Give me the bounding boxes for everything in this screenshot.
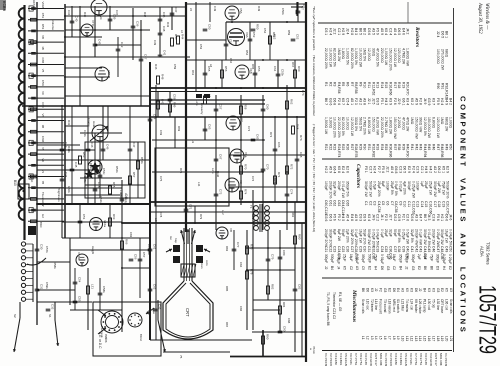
svg-text:H2 9: H2 9 [341,28,345,35]
svg-text:300pF: 300pF [324,254,328,263]
svg-text:R26: R26 [346,144,350,150]
svg-text:C61: C61 [328,200,332,206]
svg-text:0·01μF: 0·01μF [336,254,340,264]
svg-text:R82: R82 [271,284,275,290]
svg-text:R47: R47 [161,99,165,105]
svg-text:R75: R75 [179,168,183,174]
svg-text:B4 2: B4 2 [449,98,453,105]
svg-text:D3 9: D3 9 [363,214,367,221]
svg-text:R85: R85 [225,286,229,292]
svg-text:R81: R81 [291,212,295,218]
svg-text:B1D: B1D [39,222,43,227]
svg-text:C62: C62 [333,200,337,206]
svg-text:F5 9: F5 9 [436,98,440,105]
svg-text:R32,R82: R32,R82 [371,144,375,157]
svg-text:L18: L18 [436,336,440,342]
svg-text:500pF 2W: 500pF 2W [367,229,371,245]
svg-text:C67: C67 [219,154,223,160]
svg-text:R92,R142: R92,R142 [445,83,449,98]
svg-text:R20,R70: R20,R70 [406,82,410,95]
svg-text:CRT: CRT [147,310,151,316]
svg-text:CT: CT [302,4,306,8]
svg-text:V1 PCF80: V1 PCF80 [324,353,328,366]
svg-text:12,000Ω: 12,000Ω [367,48,371,61]
svg-text:B6 7: B6 7 [324,98,328,105]
svg-text:V5 ECL80: V5 ECL80 [404,353,408,366]
svg-text:R60: R60 [297,66,301,72]
svg-text:R47: R47 [436,144,440,150]
svg-text:R74: R74 [244,189,248,195]
svg-text:R83: R83 [225,246,229,252]
svg-text:Ion: Ion [169,236,173,240]
svg-text:PL1 lamp: PL1 lamp [423,299,427,313]
svg-text:J2 1: J2 1 [367,98,371,105]
svg-text:R49: R49 [173,102,177,108]
svg-text:8μF 2W: 8μF 2W [337,229,341,242]
svg-text:F5 2: F5 2 [337,214,341,221]
svg-text:F2 6: F2 6 [393,98,397,105]
svg-text:R56b: R56b [140,157,144,164]
svg-text:R65: R65 [251,64,255,70]
svg-text:Line: Line [195,100,199,106]
svg-text:B6 1: B6 1 [445,31,449,38]
svg-text:C38: C38 [397,246,401,252]
svg-text:0·1μF: 0·1μF [380,229,384,238]
svg-text:V5A: V5A [239,8,243,14]
svg-text:C63: C63 [337,200,341,206]
svg-text:200pF 2W: 200pF 2W [432,229,436,245]
svg-text:500pF 20%: 500pF 20% [446,181,450,198]
svg-text:R23: R23 [333,144,337,150]
svg-text:4.7MΩ 2W: 4.7MΩ 2W [401,48,405,65]
svg-text:R66: R66 [125,239,129,245]
svg-text:V4 EB91: V4 EB91 [399,353,403,365]
svg-text:C50: C50 [208,24,212,30]
svg-text:T392 Series: T392 Series [486,242,491,265]
svg-text:Scan: Scan [200,262,204,269]
svg-text:C54: C54 [263,28,267,34]
svg-text:L26 choke: L26 choke [418,299,422,314]
svg-text:L14 line: L14 line [374,299,378,310]
svg-text:C6: C6 [386,201,390,205]
svg-text:V9 PL38: V9 PL38 [424,353,428,365]
svg-text:L18 vision: L18 vision [387,299,391,314]
svg-text:J2 7: J2 7 [389,214,393,221]
svg-text:C42: C42 [120,42,124,48]
svg-text:R48,R98: R48,R98 [440,144,444,157]
svg-text:2,200Ω: 2,200Ω [397,117,401,128]
svg-text:C82: C82 [298,284,302,290]
svg-text:R36,R86: R36,R86 [389,144,393,157]
svg-text:L20: L20 [445,336,449,342]
svg-text:C53b: C53b [281,69,285,76]
svg-text:B4 9: B4 9 [444,98,448,105]
svg-text:1B: 1B [41,46,45,50]
svg-text:32μF 5%: 32μF 5% [410,229,414,243]
svg-text:C74: C74 [290,189,294,195]
svg-text:S2: S2 [13,314,17,318]
svg-text:B6: B6 [423,266,427,270]
svg-text:G6 4: G6 4 [333,166,337,173]
svg-text:F2 5: F2 5 [384,214,388,221]
svg-text:R84: R84 [282,302,286,308]
svg-text:R70: R70 [244,164,248,170]
svg-text:V7: V7 [240,118,244,122]
svg-text:1MΩ: 1MΩ [410,117,414,125]
svg-text:C65: C65 [256,134,260,140]
svg-text:C30: C30 [363,246,367,252]
svg-text:C49: C49 [444,246,448,252]
svg-text:V9: V9 [239,180,243,184]
svg-text:A3 2: A3 2 [433,166,437,173]
svg-text:C70: C70 [266,164,270,170]
svg-text:L15: L15 [423,336,427,342]
svg-text:22,000Ω 20%: 22,000Ω 20% [337,117,341,138]
svg-text:L13: L13 [414,336,418,342]
svg-text:R1: R1 [324,82,328,86]
svg-text:D6: D6 [414,288,418,292]
svg-text:C6B: C6B [41,58,45,64]
svg-text:K5 7: K5 7 [341,98,345,105]
svg-text:V6 PL81: V6 PL81 [349,353,353,365]
svg-text:C80: C80 [282,250,286,256]
svg-text:R90: R90 [436,83,440,89]
svg-text:C2: C2 [349,266,353,270]
svg-text:C27: C27 [350,246,354,252]
svg-text:2μF 20%: 2μF 20% [346,229,350,243]
svg-text:C58: C58 [173,94,177,100]
svg-text:R9: R9 [358,82,362,86]
svg-text:150,000Ω ½W: 150,000Ω ½W [393,117,397,140]
svg-text:T3 sound: T3 sound [383,299,387,313]
svg-text:L9: L9 [396,336,400,340]
svg-text:L12: L12 [221,210,225,215]
svg-text:L8: L8 [209,64,213,68]
svg-text:R11: R11 [367,82,371,88]
svg-text:100,000Ω: 100,000Ω [436,49,440,64]
svg-text:L9: L9 [191,140,195,144]
svg-text:F2: F2 [379,288,383,292]
svg-text:0·01μF 1W: 0·01μF 1W [341,181,345,199]
svg-text:J2 5: J2 5 [371,98,375,105]
svg-text:1057/T29: 1057/T29 [474,285,500,354]
svg-text:R43: R43 [166,22,170,28]
svg-text:C37: C37 [174,7,178,13]
svg-text:D3 6: D3 6 [367,28,371,35]
svg-text:25μF 1W: 25μF 1W [429,181,433,196]
svg-text:L4: L4 [374,336,378,340]
svg-text:C40: C40 [75,16,79,22]
svg-text:H2 4: H2 4 [373,166,377,173]
svg-text:D6: D6 [380,266,384,270]
svg-text:V3 EF80: V3 EF80 [334,353,338,365]
svg-text:12,000Ω 1W: 12,000Ω 1W [393,48,397,68]
svg-text:120,000Ω 1W: 120,000Ω 1W [436,117,440,139]
svg-text:C60,C110: C60,C110 [324,200,328,215]
svg-text:V6A: V6A [245,32,249,38]
svg-text:0·1μF ½W: 0·1μF ½W [419,229,423,246]
svg-text:1,800Ω: 1,800Ω [341,48,345,59]
svg-text:330Ω: 330Ω [371,48,375,57]
svg-text:C51: C51 [82,214,86,220]
svg-text:A5 9: A5 9 [380,28,384,35]
svg-text:D6: D6 [365,288,369,292]
svg-text:0·04μF 5%: 0·04μF 5% [376,229,380,246]
svg-text:R3: R3 [333,82,337,86]
svg-text:B6 5: B6 5 [358,28,362,35]
svg-text:C77: C77 [236,242,240,248]
svg-text:V8 EY51: V8 EY51 [419,353,423,365]
svg-text:R54: R54 [245,50,249,56]
svg-text:R87: R87 [225,322,229,328]
svg-text:C51: C51 [229,39,233,45]
svg-text:1μF 2W: 1μF 2W [437,181,441,194]
svg-text:100pF: 100pF [416,181,420,191]
svg-text:C18: C18 [437,201,441,207]
svg-text:L21: L21 [449,336,453,342]
svg-text:C64: C64 [273,66,277,72]
svg-text:C65: C65 [346,200,350,206]
svg-text:J2 4: J2 4 [436,31,440,38]
svg-text:C23: C23 [333,246,337,252]
svg-text:C15: C15 [424,201,428,207]
svg-text:L21 filter: L21 filter [401,299,405,312]
svg-text:R4,R54: R4,R54 [337,82,341,94]
svg-text:Miscellaneous: Miscellaneous [351,289,357,322]
svg-text:120,000Ω: 120,000Ω [397,48,401,63]
svg-text:D53: D53 [41,24,45,30]
svg-text:CRT base: CRT base [440,299,444,313]
svg-text:R41: R41 [67,120,71,126]
svg-text:B6: B6 [361,288,365,292]
svg-text:C50: C50 [449,246,453,252]
svg-text:E2 9: E2 9 [446,166,450,173]
svg-text:ACTd: ACTd [32,0,36,8]
svg-text:C35: C35 [384,246,388,252]
svg-text:August 30, 1952: August 30, 1952 [477,2,482,34]
svg-text:Volume: Volume [51,20,55,30]
svg-text:8μF: 8μF [333,229,337,235]
svg-text:2μF: 2μF [417,254,421,260]
svg-text:R25: R25 [341,144,345,150]
svg-text:C30: C30 [40,244,44,250]
svg-text:V5: V5 [41,69,45,73]
svg-text:C25: C25 [341,246,345,252]
svg-text:trap: trap [174,238,178,243]
svg-text:300pF 2W: 300pF 2W [440,229,444,245]
svg-text:0·1μF 20%: 0·1μF 20% [354,229,358,246]
svg-text:25μF 20%: 25μF 20% [377,181,381,197]
svg-text:B4: B4 [398,266,402,270]
svg-text:K5: K5 [343,266,347,270]
svg-text:C7: C7 [390,201,394,205]
svg-text:R38: R38 [397,144,401,150]
svg-text:Linearity: Linearity [200,103,204,115]
svg-text:680Ω: 680Ω [445,49,449,58]
svg-text:C57: C57 [142,252,146,258]
svg-text:R71: R71 [277,172,281,178]
svg-text:V6 PL81: V6 PL81 [409,353,413,365]
svg-text:R91: R91 [440,83,444,89]
svg-text:R45: R45 [174,34,178,40]
svg-text:C22: C22 [328,246,332,252]
svg-text:16μF 1W: 16μF 1W [444,229,448,244]
svg-text:G6 8: G6 8 [394,166,398,173]
svg-text:L30 coil: L30 coil [427,299,431,310]
svg-text:G3: G3 [411,266,415,270]
svg-text:C10: C10 [403,201,407,207]
svg-text:R58: R58 [244,104,248,110]
svg-text:J4 9: J4 9 [423,98,427,105]
svg-text:D6 5: D6 5 [397,28,401,35]
svg-text:150,000Ω: 150,000Ω [371,117,375,132]
svg-text:C78: C78 [159,212,163,218]
svg-text:C76: C76 [251,176,255,182]
svg-text:A5 4: A5 4 [390,166,394,173]
svg-text:75pF 1W: 75pF 1W [441,181,445,196]
svg-text:1MΩ 5%: 1MΩ 5% [363,48,367,61]
svg-text:C5 9: C5 9 [397,214,401,221]
svg-text:0·01μF: 0·01μF [380,254,384,264]
svg-text:R44: R44 [181,34,185,40]
svg-text:C1: C1 [364,201,368,205]
svg-text:R63: R63 [112,214,116,220]
svg-text:16μF: 16μF [392,254,396,261]
svg-text:C45: C45 [74,162,78,168]
svg-text:A3 9: A3 9 [354,214,358,221]
svg-text:1μF: 1μF [386,254,390,260]
svg-text:E4 8: E4 8 [350,214,354,221]
svg-text:A5 9: A5 9 [414,98,418,105]
svg-text:C37: C37 [393,246,397,252]
svg-text:0·05μF 20%: 0·05μF 20% [371,229,375,248]
svg-text:G3 9: G3 9 [427,98,431,105]
svg-text:R6: R6 [346,82,350,86]
svg-text:H2 4: H2 4 [328,28,332,35]
svg-text:COMPONENT VALUES AND LOCATI: COMPONENT VALUES AND LOCATIONS [459,96,468,334]
svg-text:C73: C73 [247,126,251,132]
svg-text:82,000Ω 20%: 82,000Ω 20% [350,48,354,69]
svg-text:C56: C56 [134,254,138,260]
svg-text:6,800Ω 1W: 6,800Ω 1W [367,117,371,135]
svg-text:K5 2: K5 2 [410,98,414,105]
svg-text:C17: C17 [433,201,437,207]
svg-text:L7: L7 [387,336,391,340]
svg-text:R44,R94: R44,R94 [423,144,427,157]
svg-text:C50b: C50b [281,8,285,15]
svg-text:D6 3: D6 3 [328,214,332,221]
svg-text:F5 4: F5 4 [381,166,385,173]
svg-text:F5 1: F5 1 [380,98,384,105]
svg-text:K5 1: K5 1 [441,166,445,173]
svg-text:300pF: 300pF [411,254,415,263]
svg-text:D6 8: D6 8 [333,98,337,105]
svg-text:D6 6: D6 6 [444,214,448,221]
svg-text:200pF 20%: 200pF 20% [324,229,328,246]
svg-text:F5 6: F5 6 [333,214,337,221]
svg-text:C16,C66: C16,C66 [429,201,433,214]
svg-text:R69: R69 [177,126,181,132]
svg-text:C2 7: C2 7 [368,166,372,173]
svg-text:E2: E2 [417,266,421,270]
svg-text:K5: K5 [405,288,409,292]
svg-text:22,000Ω 20%: 22,000Ω 20% [324,48,328,69]
svg-text:C33: C33 [376,246,380,252]
svg-text:C61: C61 [153,244,157,250]
svg-text:Scan coils: Scan coils [361,299,365,314]
svg-text:B10: B10 [13,180,17,186]
svg-text:B10d: B10d [139,334,143,341]
svg-text:R56: R56 [224,66,228,72]
svg-text:C62: C62 [153,284,157,290]
svg-text:0·04μF 5%: 0·04μF 5% [449,229,453,246]
svg-text:500pF: 500pF [330,254,334,263]
svg-text:0·25μF: 0·25μF [401,229,405,240]
svg-text:J4 2: J4 2 [406,28,410,35]
svg-text:C47: C47 [132,142,136,148]
svg-text:K3: K3 [427,288,431,292]
svg-text:C31: C31 [40,284,44,290]
svg-text:J2 2: J2 2 [386,166,390,173]
svg-text:K3 7: K3 7 [432,98,436,105]
svg-text:Focusing: Focusing [100,326,104,338]
svg-text:L3: L3 [370,336,374,340]
svg-text:C59b: C59b [45,282,49,289]
svg-text:C5 4: C5 4 [346,98,350,105]
svg-text:C34: C34 [380,246,384,252]
svg-text:47,000Ω 5%: 47,000Ω 5% [376,48,380,67]
svg-text:F5 1: F5 1 [364,166,368,173]
svg-text:1,800Ω 2W: 1,800Ω 2W [389,117,393,135]
svg-text:C66: C66 [277,142,281,148]
svg-text:R50: R50 [256,24,260,30]
svg-text:C2 2: C2 2 [376,214,380,221]
svg-text:R31: R31 [367,144,371,150]
svg-text:12,000Ω 1W: 12,000Ω 1W [350,117,354,137]
svg-text:L17: L17 [431,336,435,342]
svg-text:C2: C2 [392,266,396,270]
svg-text:R16,R66: R16,R66 [389,82,393,95]
svg-text:A3 3: A3 3 [414,214,418,221]
svg-text:10,000Ω: 10,000Ω [346,117,350,130]
svg-text:CRT C17BM: CRT C17BM [434,353,438,366]
svg-text:C2 6: C2 6 [406,214,410,221]
svg-text:L11: L11 [405,336,409,341]
svg-text:V1 PCF80: V1 PCF80 [384,353,388,366]
svg-text:C52: C52 [252,32,256,38]
svg-text:H4: H4 [374,266,378,270]
svg-text:Brightness: Brightness [57,188,61,202]
svg-text:25μF 5%: 25μF 5% [390,181,394,195]
svg-text:S1: S1 [48,314,52,318]
svg-text:V8 EY51: V8 EY51 [359,353,363,365]
svg-text:150,000Ω 20%: 150,000Ω 20% [389,48,393,71]
svg-text:CRT C17BM: CRT C17BM [374,353,378,366]
svg-text:C32: C32 [51,304,55,310]
svg-text:K5: K5 [445,288,449,292]
svg-text:C46: C46 [90,142,94,148]
svg-text:C11: C11 [407,201,411,207]
svg-text:J4 3: J4 3 [427,214,431,221]
svg-text:V3 EF80: V3 EF80 [394,353,398,365]
svg-text:C64,C114: C64,C114 [341,200,345,215]
svg-text:220,000Ω: 220,000Ω [380,48,384,63]
svg-text:V8 holder: V8 holder [414,299,418,314]
svg-text:32μF: 32μF [389,229,393,237]
svg-text:L16: L16 [427,336,431,342]
svg-text:H4: H4 [442,266,446,270]
svg-text:C14: C14 [420,201,424,207]
